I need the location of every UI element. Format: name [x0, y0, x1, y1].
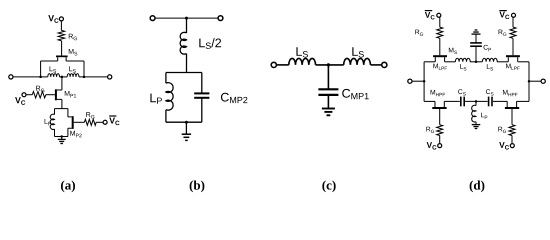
node: top center junction (d) [475, 61, 478, 64]
label RG bottom-left (d) [426, 127, 434, 133]
inductor LS left (c) [289, 58, 316, 64]
label RG bottom (a) [86, 112, 94, 118]
label RG top-right (d) [499, 30, 507, 36]
wire: LP loop top (a) [55, 108, 68, 110]
transistor MLPF left (d): legs [435, 57, 444, 62]
ground (c) [322, 108, 335, 110]
wire: bypass right vertical (a) [83, 61, 85, 77]
label MS (d) [449, 48, 457, 54]
label RG top (a) [69, 34, 77, 40]
label LS right (d) [487, 64, 493, 70]
wire: loop top (b) [166, 72, 202, 74]
label RG middle (a) [36, 86, 44, 92]
wire: MHPF right to right rail (d) [517, 100, 529, 102]
transistor MS (a): source/drain legs [58, 57, 66, 61]
wire: LP loop left upper stub (a) [54, 109, 56, 115]
label MHPF left (d) [431, 90, 446, 96]
wire: center node to CMP1 (c) [327, 65, 329, 89]
label VCbar top-left (d) [425, 12, 435, 19]
capacitor CS2 (d): right plate [491, 97, 493, 107]
transistor MLPF right (d): legs [508, 57, 517, 62]
node: center junction (a) [61, 76, 64, 79]
label MHPF right (d) [503, 90, 518, 96]
capacitor CMP2 (b): top plate [194, 92, 209, 94]
wire: MP2 source stub (a) [67, 128, 69, 136]
transistor MLPF right (d): channel/gate bar [506, 55, 520, 57]
wire: loop right lower (b) [201, 98, 203, 122]
wire: VC port to RG (a) middle [26, 94, 32, 96]
transistor MS (a): channel/gate bar [56, 56, 68, 58]
label LP (a) [45, 119, 52, 125]
label VC middle-left (a) [15, 97, 25, 105]
wire: VCbar to RG top-left (d) [439, 17, 441, 27]
label CMP2 (b) [221, 93, 247, 103]
wire: loop to ground (a) [61, 137, 63, 140]
label MLPF right (d) [506, 64, 520, 70]
transistor MS (a): gate lead [61, 41, 63, 56]
node: loop bottom center (b) [185, 121, 188, 124]
inductor LP (d) [475, 101, 477, 105]
wire: RG to VC bottom-right (d) [511, 136, 513, 144]
node: left bypass junction (a) [39, 76, 42, 79]
port VC bottom-left (d) [438, 144, 442, 148]
label LS left (a) [50, 66, 57, 72]
transistor MLPF left (d): channel/gate bar [433, 55, 447, 57]
label LS/2 (b) [199, 38, 221, 49]
node: top center (b) [185, 17, 188, 20]
inductor LP (b) [166, 83, 173, 111]
transistor MP1 (a): drain/source arms [57, 90, 62, 99]
wire: CMP1 to ground (c) [327, 95, 329, 109]
label VC top (a) [48, 15, 58, 23]
overline VCbar top-left (d) [425, 10, 432, 12]
overline of VCbar (a) [109, 115, 116, 117]
wire: left port to left bypass node (a) [13, 76, 48, 78]
inductor LS left (a) [48, 74, 60, 77]
resistor RG bottom (a) [84, 119, 96, 125]
ground (b) [182, 133, 191, 135]
wire: MLPF left to LS coil (d) [445, 61, 456, 63]
capacitor CMP2 (b): bottom plate [194, 97, 209, 99]
wire: RG to VCbar port (a) [96, 121, 103, 123]
wire: left port to LS coil (c) [276, 64, 288, 66]
inductor LS right (c) [344, 58, 371, 64]
capacitor CMP1 (c): bottom plate [318, 94, 338, 96]
wire: coil to center node (c) [316, 64, 344, 66]
wire: CP to inverted ground (d) [475, 34, 477, 43]
label LP (b) [150, 94, 161, 104]
port VC bottom-right (d) [510, 144, 514, 148]
wire: right coil to MLPF right (d) [497, 61, 508, 63]
wire: rail to MHPF left (d) [424, 100, 435, 102]
label MP2 (a) [70, 131, 81, 137]
port VC top (a) [59, 17, 63, 21]
label CS1 (d) [458, 89, 466, 95]
label LP (d) [481, 113, 487, 119]
label LS left (c) [296, 47, 308, 57]
resistor RG bottom-right (d) [509, 125, 515, 136]
node: center junction (c) [327, 63, 330, 66]
transistor MP1 (a): drain lead from center node [61, 77, 63, 90]
wire: VC port to RG (a) [60, 21, 62, 30]
wire: CS2 to MHPF right (d) [493, 100, 507, 102]
transistor MLPF left (d): gate lead [439, 38, 441, 55]
wire: bypass left vertical (a) [40, 61, 42, 77]
label VC bottom-right (d) [499, 142, 509, 149]
label CS2 (d) [486, 89, 494, 95]
resistor RG middle-left (a) [32, 92, 46, 98]
wire: bypass top-right horizontal (a) [66, 60, 84, 62]
wire: loop left lower (b) [165, 110, 167, 122]
wire: right coil to right port (a) [79, 76, 108, 78]
transistor MHPF right (d): channel/gate bar [505, 107, 519, 109]
transistor MHPF left (d): gate lead [439, 109, 441, 125]
node: loop bottom center (a) [60, 135, 63, 138]
capacitor CP (d): top plate [470, 42, 482, 44]
wire: left rail (d) [423, 62, 425, 102]
capacitor CS1 (d): right plate [463, 97, 465, 107]
wire: RG to VC bottom-left (d) [439, 136, 441, 144]
resistor RG top-right (d) [510, 27, 516, 38]
caption (c) [322, 180, 335, 192]
node: right rail junction (d) [528, 80, 531, 83]
node: right bypass junction (a) [83, 76, 86, 79]
ground inverted (d) [472, 33, 481, 35]
wire: loop bottom (b) [166, 121, 202, 123]
transistor MHPF left (d): channel/gate bar [432, 107, 446, 109]
transistor MP2 (a): body bar [72, 116, 74, 129]
transistor MLPF right (d): gate lead [512, 38, 514, 55]
transistor MP2 (a): drain/source arms [68, 117, 72, 128]
capacitor CMP1 (c): top plate [318, 88, 338, 90]
label VCbar top-right (d) [499, 12, 509, 19]
wire: MHPF left to CS1 (d) [444, 100, 460, 102]
label RG bottom-right (d) [498, 127, 506, 133]
transistor MP1 (a): body bar [55, 89, 57, 100]
port right (c) [382, 62, 387, 67]
wire: bypass top-left horizontal (a) [41, 60, 58, 62]
wire: center down to LS/2 (b) [186, 18, 188, 33]
ground (a) [58, 138, 66, 140]
port left (d) [408, 79, 412, 83]
wire: to ground (b) [185, 122, 187, 134]
label MP1 (a) [65, 91, 76, 97]
port right (b) [218, 16, 223, 21]
label LS right (a) [69, 66, 76, 72]
label CMP1 (c) [342, 89, 368, 99]
wire: loop left upper (b) [165, 73, 167, 84]
wire: center node up to CP (d) [475, 46, 477, 62]
label VCbar (a) [109, 117, 119, 125]
wire: VCbar to RG top-right (d) [512, 17, 514, 27]
wire: MP2 drain stub (a) [67, 109, 69, 117]
transistor MHPF right (d): legs [507, 101, 516, 107]
wire: top rail (b) [155, 17, 219, 19]
capacitor CS1 (d): left plate [460, 97, 462, 107]
resistor RG top-left (d) [437, 27, 443, 38]
wire: MLPF right to right rail (d) [518, 61, 529, 63]
caption (b) [190, 180, 205, 192]
inductor LS left (d) [455, 58, 470, 62]
port right (d) [541, 79, 545, 83]
inductor LP (a) [50, 114, 54, 129]
port P1 left (a) [9, 75, 13, 79]
wire: loop right upper (b) [201, 73, 203, 94]
port VCbar (a) [103, 120, 107, 124]
wire: CS1 to center (d) bottom [465, 100, 488, 102]
wire: RG to MP1 gate (a) [46, 94, 55, 96]
label MS (a) [69, 49, 77, 55]
port left (b) [150, 16, 155, 21]
label LS left (d) [460, 64, 466, 70]
port VCbar top-left (d) [437, 13, 441, 17]
wire: LP loop left lower stub (a) [54, 129, 56, 136]
wire: left port to left rail (d) [412, 80, 424, 82]
wire: rail to MLPF left (d) [424, 61, 435, 63]
wire: right rail to right port (d) [529, 80, 541, 82]
port VCbar top-right (d) [512, 13, 516, 17]
transistor MHPF right (d): gate lead [511, 109, 513, 125]
node: left rail junction (d) [423, 80, 426, 83]
node: bottom center junction (d) [475, 100, 478, 103]
label MLPF left (d) [433, 64, 447, 70]
wire: coil to center (d) top [470, 61, 482, 63]
inductor LS right (a) [67, 74, 79, 77]
port P2 right (a) [108, 75, 112, 79]
label CP (d) [484, 45, 492, 51]
wire: MP2 gate lead (a) [74, 121, 85, 123]
transistor MHPF left (d): legs [435, 101, 444, 107]
port left (c) [271, 62, 276, 67]
inductor LS/2 (b) [180, 32, 186, 54]
caption (d) [470, 180, 485, 192]
capacitor CP (d): bottom plate [470, 45, 482, 47]
overline VCbar top-right (d) [499, 10, 506, 12]
wire: left coil to right coil through center (a) [60, 76, 68, 78]
caption (a) [61, 180, 75, 192]
wire: LP loop bottom (a) [55, 136, 68, 138]
wire: right rail (d) [528, 62, 530, 102]
capacitor CS2 (d): left plate [488, 97, 490, 107]
wire: right coil to port (c) [371, 64, 382, 66]
label RG top-left (d) [415, 30, 423, 36]
resistor RG top (a) [58, 30, 64, 40]
ground (d) [472, 124, 481, 126]
wire: LP to ground (d) [475, 122, 477, 125]
inductor LS right (d) [482, 58, 497, 62]
resistor RG bottom-left (d) [437, 125, 443, 136]
label VC bottom-left (d) [427, 142, 437, 149]
port VC middle-left (a) [22, 93, 26, 97]
wire: LS/2 to loop top (b) [186, 54, 188, 73]
label LS right (c) [352, 47, 364, 57]
wire: MP1 source down to LP loop (a) [61, 99, 63, 108]
